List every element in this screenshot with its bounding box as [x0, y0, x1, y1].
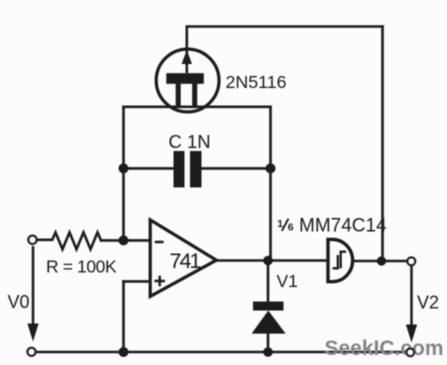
V2 arrow: [406, 266, 417, 343]
svg-text:2N5116: 2N5116: [226, 72, 287, 92]
wire right vertical (to op-amp output node): [269, 107, 272, 261]
terminal V0 top (input): [28, 236, 36, 244]
node inverting input junction: [119, 235, 129, 245]
svg-text:R = 100K: R = 100K: [46, 257, 117, 277]
node capacitor right junction: [266, 163, 276, 173]
label 1/6 MM74C14: [277, 216, 387, 237]
terminal V2 bottom: [407, 349, 415, 357]
wire capacitor right stub: [202, 167, 271, 170]
wire right vertical rail: [381, 27, 384, 261]
op-amp U1 741: [150, 220, 216, 297]
node noninverting bottom junction: [119, 347, 129, 357]
node diode bottom junction: [263, 347, 273, 357]
wire bottom rail: [36, 351, 410, 354]
terminal V0 bottom: [28, 348, 36, 356]
svg-text:V2: V2: [417, 293, 439, 313]
svg-text:V0: V0: [8, 292, 30, 312]
svg-text:6: 6: [288, 221, 294, 233]
wire diode top lead: [267, 261, 270, 302]
node op-amp output junction: [263, 256, 273, 266]
wire left vertical (source leg down to inverting input): [122, 107, 125, 241]
node capacitor left junction: [119, 163, 129, 173]
wire resistor to op-amp inverting input: [101, 239, 150, 242]
V0 arrow: [27, 246, 38, 342]
wire capacitor left stub: [124, 167, 174, 170]
wire op-amp output to schmitt input: [216, 259, 327, 262]
svg-text:V1: V1: [277, 271, 298, 291]
transistor Q1 2N5116 (P-channel JFET in circle): [156, 27, 219, 112]
resistor R1 zigzag: [52, 232, 101, 249]
node schmitt output junction: [377, 256, 386, 265]
schmitt trigger U2 1/6 MM74C14: [328, 239, 353, 281]
wire op-amp noninverting input stub: [124, 280, 151, 283]
diode V1: [252, 302, 286, 334]
svg-text:SeekIC.com: SeekIC.com: [325, 337, 444, 360]
wire left vertical to bottom rail: [122, 281, 125, 352]
svg-text:MM74C14: MM74C14: [299, 216, 387, 237]
wire top horizontal from transistor drain to right rail: [187, 25, 383, 28]
wire input terminal to resistor: [37, 239, 52, 242]
svg-text:C 1N: C 1N: [169, 131, 211, 152]
capacitor C1 plates: [174, 151, 202, 187]
wire under transistor horizontal: [124, 106, 271, 109]
wire diode bottom lead: [267, 333, 270, 352]
terminal V2 top (output): [407, 257, 415, 265]
svg-text:741: 741: [170, 249, 201, 273]
wire schmitt output to V2 terminal: [353, 260, 408, 263]
